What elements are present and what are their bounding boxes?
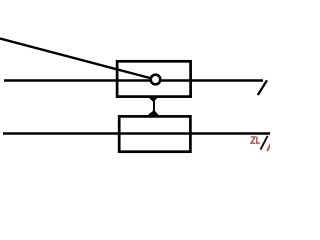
pivot circle <box>151 75 161 85</box>
watermark letter L <box>257 137 260 144</box>
watermark black slash <box>261 136 268 150</box>
watermark letter Z <box>251 137 256 143</box>
watermark red slash at edge <box>267 143 271 151</box>
break slash at right end of upper line <box>258 80 267 95</box>
box ZL (lower load block) <box>119 116 190 151</box>
wire: diagonal input line to pivot <box>0 39 156 80</box>
wire: upper horizontal line <box>4 79 263 81</box>
wire: lower horizontal line <box>3 132 270 134</box>
connector arrow upper triangle <box>148 97 158 103</box>
connector lower bell foot <box>148 110 158 115</box>
connector link wire <box>153 99 155 113</box>
box U1 (upper block with pivot contact) <box>117 61 191 96</box>
